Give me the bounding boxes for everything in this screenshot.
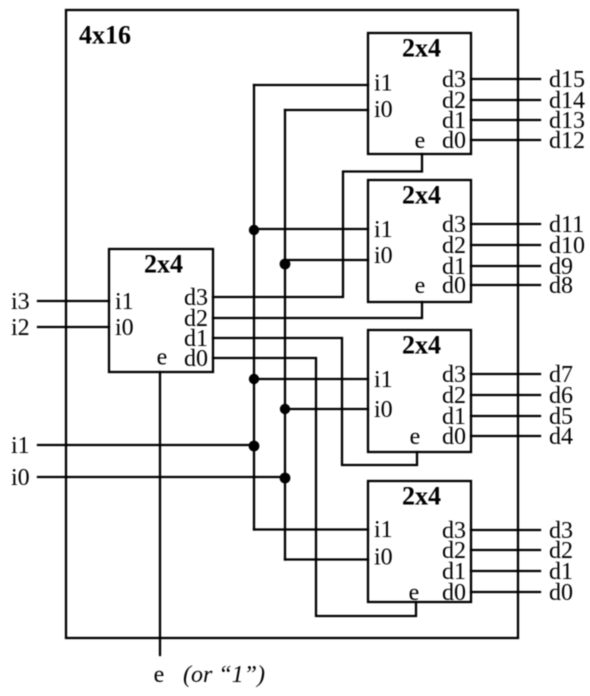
- svg-text:(or “1”): (or “1”): [183, 662, 265, 688]
- svg-text:i3: i3: [11, 289, 30, 315]
- wire i1 bus vertical: [253, 85, 255, 530]
- svg-text:d0: d0: [442, 424, 466, 450]
- label output d10: [549, 233, 585, 259]
- wire i1 bus to U4.i1: [254, 528, 368, 530]
- label U4 pin e: [409, 580, 420, 606]
- svg-text:d0: d0: [184, 346, 208, 372]
- wire output d13: [471, 119, 540, 121]
- wire i0 bus to U4.i0: [285, 558, 368, 560]
- svg-text:i1: i1: [374, 517, 393, 543]
- wire output d4: [471, 435, 540, 437]
- label U3 pin d2: [442, 383, 466, 409]
- label output d12: [549, 128, 585, 154]
- label U3 pin i0: [374, 397, 393, 423]
- label output d7: [549, 362, 573, 388]
- label output d6: [549, 383, 573, 409]
- wire output d8: [471, 284, 540, 286]
- decoder U0 box (left 2x4): [109, 249, 213, 372]
- wire input i0 to i0 bus: [38, 476, 285, 478]
- label U1 pin e: [415, 128, 426, 154]
- svg-text:e: e: [415, 128, 426, 154]
- decoder U3 box: [368, 330, 471, 452]
- label U0 title 2x4: [144, 250, 183, 279]
- wire U0.e to external e: [159, 372, 161, 655]
- wire U0.d1 to U3.e: [213, 338, 417, 465]
- label output d13: [549, 108, 585, 134]
- label output d8: [549, 273, 573, 299]
- label U0 pin d2: [184, 306, 208, 332]
- label U0 pin e: [157, 345, 168, 371]
- label (or "1"): [183, 662, 265, 688]
- label output d4: [549, 424, 573, 450]
- label U0 pin d1: [184, 326, 208, 352]
- wire input i1 to i1 bus: [38, 444, 254, 446]
- svg-text:i1: i1: [374, 367, 393, 393]
- decoder U1 box (top 2x4): [368, 33, 471, 154]
- label U4 pin d1: [442, 559, 466, 585]
- junction i0 bus / U3.i0: [280, 404, 290, 414]
- label input i2: [11, 315, 30, 341]
- wire output d11: [471, 223, 540, 225]
- wire i1 bus to U2.i1: [254, 228, 368, 230]
- label U4 pin d3: [442, 518, 466, 544]
- junction i0 bus / U2.i0: [280, 259, 291, 270]
- label U3 pin d1: [442, 404, 466, 430]
- label U0 pin i0: [115, 315, 134, 341]
- label U2 pin i0: [374, 243, 393, 269]
- label 4x16: [79, 21, 131, 50]
- label U1 pin d3: [442, 67, 466, 93]
- junction i0 bus / input i0: [280, 473, 291, 484]
- label enable e: [154, 662, 165, 688]
- label output d14: [549, 88, 585, 114]
- svg-text:i2: i2: [11, 315, 30, 341]
- svg-text:d0: d0: [442, 273, 466, 299]
- label U4 pin i0: [374, 545, 393, 571]
- label output d11: [549, 212, 584, 238]
- label U2 title 2x4: [402, 181, 441, 210]
- decoder U4 box (bottom 2x4): [368, 481, 471, 602]
- svg-text:d0: d0: [442, 128, 466, 154]
- svg-text:i1: i1: [11, 433, 30, 459]
- decoder U2 box: [368, 180, 471, 302]
- wire output d7: [471, 373, 540, 375]
- wire i0 bus vertical: [284, 110, 286, 560]
- wire U0.d0 to U4.e: [213, 358, 416, 616]
- label U2 pin d2: [442, 233, 466, 259]
- wire output d3: [471, 529, 540, 531]
- wire i0 bus to U2.i0: [285, 259, 368, 261]
- label U4 pin d0: [442, 580, 466, 606]
- svg-text:d12: d12: [549, 128, 585, 154]
- label output d2: [549, 538, 573, 564]
- svg-text:d4: d4: [549, 424, 573, 450]
- label output d15: [549, 67, 585, 93]
- label U1 pin i1: [374, 71, 393, 97]
- label U4 pin d2: [442, 538, 466, 564]
- svg-text:2x4: 2x4: [402, 331, 441, 360]
- wire input i3 to U0.i1: [38, 300, 109, 302]
- wire output d2: [471, 549, 540, 551]
- svg-text:2x4: 2x4: [402, 34, 441, 63]
- wire output d14: [471, 99, 540, 101]
- label output d1: [549, 559, 573, 585]
- label U1 pin i0: [374, 97, 393, 123]
- svg-text:e: e: [415, 273, 426, 299]
- svg-text:2x4: 2x4: [402, 181, 441, 210]
- svg-text:e: e: [157, 345, 168, 371]
- svg-text:i1: i1: [374, 71, 393, 97]
- junction i1 bus / U2.i1: [249, 225, 259, 235]
- svg-text:i0: i0: [374, 97, 393, 123]
- label U0 pin d3: [184, 285, 208, 311]
- wire U0.d3 to U1.e: [213, 154, 422, 297]
- svg-text:d0: d0: [549, 580, 573, 606]
- label U3 pin i1: [374, 367, 393, 393]
- label U2 pin d0: [442, 273, 466, 299]
- svg-text:i0: i0: [115, 315, 134, 341]
- wire output d0: [471, 591, 540, 593]
- label output d9: [549, 254, 573, 280]
- label output d3: [549, 518, 573, 544]
- junction i1 bus / U3.i1: [249, 374, 259, 384]
- svg-text:i1: i1: [374, 217, 393, 243]
- svg-text:e: e: [154, 662, 165, 688]
- label U3 pin e: [410, 424, 421, 450]
- svg-text:d8: d8: [549, 273, 573, 299]
- label U3 pin d0: [442, 424, 466, 450]
- label U2 pin d3: [442, 212, 466, 238]
- svg-text:e: e: [410, 424, 421, 450]
- svg-text:i0: i0: [374, 397, 393, 423]
- label input i0: [11, 465, 30, 491]
- label U2 pin i1: [374, 217, 393, 243]
- wire input i2 to U0.i0: [38, 326, 109, 328]
- wire output d10: [471, 244, 540, 246]
- label output d5: [549, 404, 573, 430]
- outer box 4x16 decoder: [66, 10, 518, 638]
- wire output d5: [471, 415, 540, 417]
- wire i1 bus to U1.i1: [254, 84, 368, 86]
- svg-text:d0: d0: [442, 580, 466, 606]
- label U1 pin d0: [442, 128, 466, 154]
- wire output d15: [471, 78, 540, 80]
- label input i1: [11, 433, 30, 459]
- label U4 title 2x4: [402, 482, 441, 511]
- svg-text:e: e: [409, 580, 420, 606]
- svg-text:i0: i0: [374, 243, 393, 269]
- svg-text:2x4: 2x4: [144, 250, 183, 279]
- label U0 pin d0: [184, 346, 208, 372]
- junction i1 bus / input i1: [249, 441, 260, 452]
- label U2 pin d1: [442, 254, 466, 280]
- wire output d12: [471, 139, 540, 141]
- svg-text:i0: i0: [374, 545, 393, 571]
- wire output d1: [471, 570, 540, 572]
- label U1 title 2x4: [402, 34, 441, 63]
- wire i0 bus to U1.i0: [285, 109, 368, 111]
- wire output d6: [471, 394, 540, 396]
- svg-text:2x4: 2x4: [402, 482, 441, 511]
- wire U0.d2 to U2.e: [213, 302, 422, 318]
- label U2 pin e: [415, 273, 426, 299]
- svg-text:4x16: 4x16: [79, 21, 131, 50]
- svg-text:i1: i1: [115, 289, 134, 315]
- label U3 title 2x4: [402, 331, 441, 360]
- wire i1 bus to U3.i1: [254, 378, 368, 380]
- label U1 pin d2: [442, 88, 466, 114]
- svg-text:i0: i0: [11, 465, 30, 491]
- label output d0: [549, 580, 573, 606]
- label U0 pin i1: [115, 289, 134, 315]
- wire i0 bus to U3.i0: [285, 408, 368, 410]
- label U1 pin d1: [442, 108, 466, 134]
- label input i3: [11, 289, 30, 315]
- wire output d9: [471, 265, 540, 267]
- label U4 pin i1: [374, 517, 393, 543]
- label U3 pin d3: [442, 362, 466, 388]
